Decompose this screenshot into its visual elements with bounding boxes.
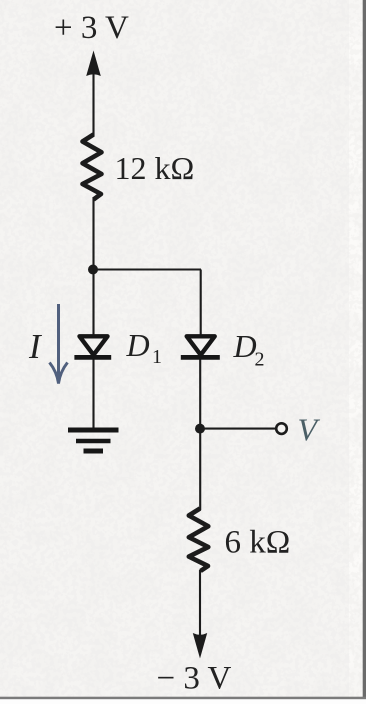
- svg-text:D: D: [233, 328, 257, 364]
- svg-text:12 kΩ: 12 kΩ: [115, 150, 195, 186]
- svg-text:− 3 V: − 3 V: [157, 661, 232, 697]
- svg-text:2: 2: [255, 349, 265, 371]
- svg-text:1: 1: [152, 346, 162, 368]
- svg-text:6 kΩ: 6 kΩ: [225, 525, 291, 561]
- svg-text:+ 3 V: + 3 V: [54, 10, 129, 46]
- svg-text:D: D: [126, 327, 150, 363]
